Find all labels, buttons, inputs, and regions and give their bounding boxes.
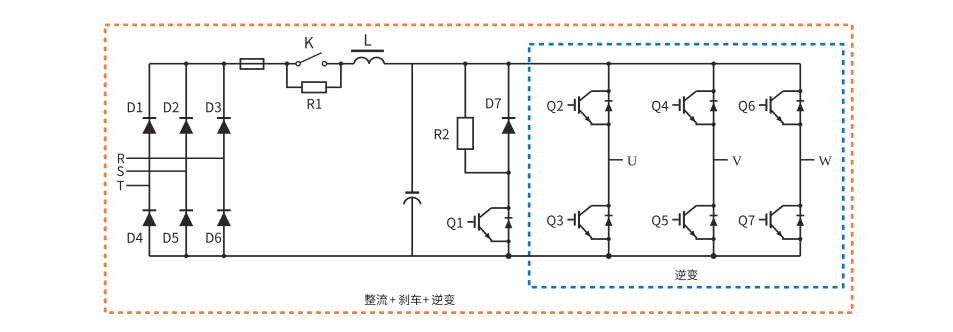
transistor Q3 (IGBT with freewheel diode) bbox=[567, 204, 612, 242]
diode D7 bbox=[502, 118, 516, 134]
node: bottom bus / Q1 emitter bbox=[506, 253, 512, 259]
wire: bottom DC bus bbox=[149, 255, 800, 257]
fuse F1 bbox=[240, 59, 263, 69]
wire: top DC bus bbox=[149, 63, 800, 65]
wire: rectifier leg 1 (D1/D4) bbox=[148, 64, 150, 256]
label D1 bbox=[128, 102, 143, 112]
label Q7 bbox=[739, 215, 755, 227]
label T bbox=[117, 181, 124, 191]
label L bbox=[365, 34, 371, 45]
caption: 整流 + 刹车 + 逆变 (rectify + brake + invert) bbox=[365, 294, 455, 305]
label Q3 bbox=[547, 215, 563, 227]
label R2 bbox=[435, 129, 449, 139]
node: top bus / leg U bbox=[607, 62, 611, 66]
node: top bus / leg3 bbox=[222, 62, 226, 66]
inductor L bbox=[351, 51, 384, 64]
diode D3 bbox=[217, 118, 231, 134]
caption: 逆变 (invert) bbox=[675, 269, 698, 280]
diode D2 bbox=[179, 118, 193, 134]
transistor Q5 (IGBT with freewheel diode) bbox=[672, 204, 717, 242]
node: top bus / leg2 bbox=[184, 62, 188, 66]
transistor Q7 (IGBT with freewheel diode) bbox=[759, 204, 804, 242]
wire: output phase V stub bbox=[714, 159, 728, 161]
wire: R1 bypass loop bbox=[287, 64, 341, 88]
transistor Q1 (IGBT with freewheel diode) bbox=[467, 206, 512, 244]
label D6 bbox=[206, 233, 221, 243]
label R1 bbox=[308, 99, 322, 109]
wire: input phase S bbox=[126, 170, 186, 172]
wire: input phase R bbox=[126, 157, 224, 159]
wire: brake chopper rail (D7/Q1) bbox=[508, 64, 510, 256]
label Q2 bbox=[547, 101, 563, 113]
wire: output phase W stub bbox=[800, 159, 814, 161]
label D4 bbox=[128, 233, 143, 243]
wire: input phase T bbox=[126, 185, 149, 187]
transistor Q6 (IGBT with freewheel diode) bbox=[759, 89, 804, 127]
wire: inverter leg U rail bbox=[608, 64, 610, 256]
node: switch K right junction bbox=[339, 62, 343, 66]
resistor R1 bbox=[302, 82, 326, 92]
label Q1 bbox=[447, 218, 463, 230]
switch K bbox=[296, 53, 327, 66]
label D2 bbox=[164, 102, 179, 112]
node: top bus / D7 branch bbox=[506, 62, 510, 66]
node: bottom bus / leg2 bbox=[184, 254, 188, 258]
label D3 bbox=[206, 102, 221, 112]
node: bottom bus / leg V bbox=[711, 253, 717, 259]
wire: rectifier leg 2 (D2/D5) bbox=[185, 64, 187, 256]
label Q5 bbox=[652, 215, 668, 227]
wire: inverter leg W rail bbox=[799, 64, 801, 256]
node: top bus / leg V bbox=[711, 62, 715, 66]
node: bottom bus / leg U bbox=[606, 253, 612, 259]
node: switch K left junction bbox=[285, 62, 289, 66]
wire: capacitor branch bbox=[411, 64, 413, 256]
label D5 bbox=[164, 233, 179, 243]
diode D5 bbox=[179, 210, 193, 226]
label R bbox=[118, 154, 125, 164]
wire: inverter leg V rail bbox=[713, 64, 715, 256]
diode D6 bbox=[217, 210, 231, 226]
wire: output phase U stub bbox=[609, 159, 623, 161]
capacitor C1 (bus capacitor) bbox=[404, 193, 421, 205]
wire: rectifier leg 3 (D3/D6) bbox=[223, 64, 225, 256]
outer dashed border (rectifier+brake+inverter block) bbox=[105, 25, 852, 313]
wire: R2 branch bbox=[465, 64, 508, 173]
transistor Q4 (IGBT with freewheel diode) bbox=[672, 89, 717, 127]
diode D1 bbox=[142, 118, 156, 134]
inner dashed border (inverter block) bbox=[529, 44, 843, 287]
node: top bus / R2 branch bbox=[463, 62, 467, 66]
node: R2 / Q1 collector junction bbox=[506, 171, 510, 175]
label Q6 bbox=[739, 101, 755, 113]
svg-text:U: U bbox=[627, 155, 637, 170]
label K bbox=[305, 37, 313, 48]
node: bottom bus / leg3 bbox=[222, 254, 226, 258]
transistor Q2 (IGBT with freewheel diode) bbox=[567, 89, 612, 127]
svg-text:V: V bbox=[732, 155, 742, 170]
resistor R2 bbox=[458, 118, 474, 149]
diode D4 bbox=[142, 210, 156, 226]
label D7 bbox=[486, 98, 501, 108]
label S bbox=[117, 166, 124, 176]
svg-text:W: W bbox=[819, 155, 833, 170]
label Q4 bbox=[652, 101, 668, 113]
